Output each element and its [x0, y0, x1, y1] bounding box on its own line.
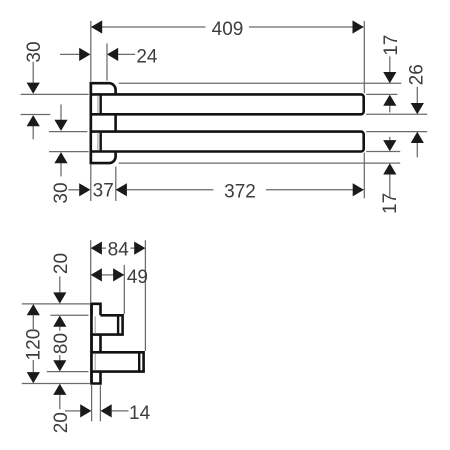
dim 26 down arrow: [411, 103, 424, 114]
dim 409 left arrow: [91, 20, 102, 33]
svg-text:372: 372: [224, 181, 256, 202]
dim 409 right arrow: [353, 20, 364, 33]
dim 30 leader (bottom): [68, 189, 79, 191]
dim 120 line: [32, 315, 34, 372]
towel bar 1 (front view): [91, 94, 364, 114]
dim 372 line: [127, 189, 353, 191]
dim 24 inner arrow: [107, 48, 118, 61]
extension line right end bottom: [363, 153, 365, 199]
wall bracket (front view): [91, 83, 116, 163]
extension line arm2 end: [144, 240, 146, 351]
svg-text:30: 30: [51, 182, 72, 203]
extension line plate bottom left: [22, 383, 90, 385]
svg-text:49: 49: [127, 267, 148, 288]
extension line plate left bottom: [91, 385, 93, 421]
dim 20 top line: [59, 276, 61, 292]
extension line bar1 top right: [366, 93, 397, 95]
svg-text:24: 24: [136, 46, 158, 67]
dim 24 outside arrow: [79, 48, 90, 61]
extension line right end top: [363, 21, 365, 93]
bar 2 pivot highlight: [97, 133, 99, 151]
extension line bracket left bottom: [90, 164, 92, 201]
dim bar2 height line: [60, 104, 62, 176]
extension line bar1 top left: [21, 93, 89, 95]
dim 372 left arrow: [116, 183, 127, 196]
svg-text:20: 20: [51, 412, 72, 433]
extension line bracket top right: [119, 82, 402, 84]
dim 80 down arrow: [53, 360, 66, 371]
towel bar 2 (front view): [91, 132, 364, 152]
svg-text:14: 14: [129, 403, 151, 424]
dim 49 right arrow: [113, 268, 124, 281]
dim 372 right arrow: [353, 183, 364, 196]
extension line left edge top: [90, 21, 92, 82]
dim 84 left arrow: [91, 242, 102, 255]
dim 14 leader: [65, 410, 80, 412]
extension line bar2 top right: [366, 131, 427, 133]
svg-text:17: 17: [381, 35, 402, 56]
dim 20 bottom line: [59, 395, 61, 410]
wall plate (side view): [92, 304, 101, 384]
dim 30 (bar1) up arrow: [27, 115, 40, 126]
extension line bracket bottom right: [119, 162, 401, 164]
dim 30 bottom arrow: [79, 183, 90, 196]
arm 2 (side view): [92, 352, 144, 371]
dim 14 right arrow: [101, 404, 112, 417]
dim 84 right arrow: [134, 242, 145, 255]
extension line bar2 bottom left: [49, 151, 89, 153]
svg-text:409: 409: [212, 19, 244, 40]
svg-text:26: 26: [406, 64, 427, 85]
dim 80 up arrow: [53, 316, 66, 327]
svg-text:17: 17: [380, 193, 401, 214]
extension line arm1 end: [123, 265, 125, 314]
dim 30 (bar1) line: [32, 62, 34, 139]
extension line bar1 bottom left: [21, 114, 51, 116]
dim 20 bottom up arrow: [53, 384, 66, 395]
svg-text:37: 37: [93, 181, 114, 202]
dim 30 (bar1) down arrow: [27, 83, 40, 94]
bar 1 pivot edge: [99, 96, 101, 114]
arm 2 end edge: [138, 353, 140, 370]
dim 26 line: [416, 87, 418, 157]
dim 49 line: [102, 274, 114, 276]
extension line bar1 bottom right: [366, 113, 427, 115]
dim 26 up arrow: [411, 132, 424, 143]
plate left edge (over arms): [90, 304, 93, 384]
svg-text:20: 20: [51, 253, 72, 274]
extension line bar2 top left: [49, 131, 87, 133]
dim 24 line: [60, 53, 135, 55]
extension line bracket right bottom: [115, 167, 117, 202]
extension line plate right bottom: [99, 385, 101, 421]
dim 409 line: [91, 26, 364, 28]
dim 17 bottom up arrow: [383, 163, 396, 174]
dim 120 down arrow: [27, 372, 40, 383]
arm 1 (side view): [92, 315, 123, 334]
dim 120 up arrow: [27, 304, 40, 315]
svg-text:120: 120: [23, 329, 44, 361]
extension line arm2 bottom left: [47, 371, 89, 373]
arm 1 joint highlight: [94, 316, 96, 333]
dim 80 line: [59, 327, 61, 361]
dim 49 left arrow: [91, 268, 102, 281]
bar 1 pivot highlight: [97, 96, 99, 114]
bracket left edge (over bars): [90, 83, 93, 163]
dim 84 line: [102, 247, 135, 249]
extension line bar2 bottom right: [366, 151, 400, 153]
svg-text:84: 84: [108, 239, 130, 260]
extension line plate top left: [22, 303, 90, 305]
dim 20 top down arrow: [53, 292, 66, 303]
dim 17 top down arrow: [383, 72, 396, 83]
svg-text:30: 30: [24, 41, 45, 62]
dim 17 bottom down arrow: [383, 140, 396, 151]
arm 1 end edge: [117, 316, 119, 333]
extension line arm1 top left: [50, 314, 88, 316]
dim 14 line: [112, 410, 129, 412]
dim 17 bottom line: [389, 137, 391, 198]
bar 2 pivot edge: [99, 133, 101, 151]
arm 2 joint highlight: [94, 353, 96, 370]
extension line plate left top: [90, 240, 92, 302]
svg-text:80: 80: [51, 333, 72, 354]
dim bar2 up arrow: [54, 152, 67, 163]
dim 17 top line: [389, 56, 391, 112]
dim 17 top up arrow: [383, 95, 396, 106]
extension line x=107 for dim 24: [106, 43, 108, 80]
dim 14 left arrow: [80, 404, 91, 417]
dim bar2 down arrow: [54, 120, 67, 131]
